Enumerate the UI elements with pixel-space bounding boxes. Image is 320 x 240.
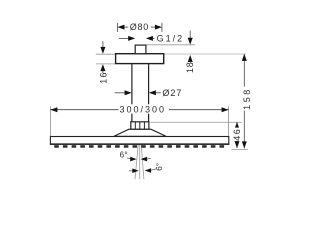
dimension O80 left arrow [118,25,125,30]
dimension 18 bottom arrow [188,55,193,62]
svg-text:16: 16 [99,71,109,83]
pipe [131,64,133,122]
bottom right extension line [232,148,248,150]
dimension 158 text [241,87,252,111]
dimension 46 bottom arrow [235,141,240,148]
svg-text:46: 46 [232,128,242,141]
dimension O27 right arrow [149,90,156,95]
angle 6 upper leader [127,158,131,159]
dimension 46 top arrow [235,122,240,129]
angle 6 upper right arrow [141,157,147,162]
svg-text:18: 18 [185,61,195,73]
nut block [131,122,149,129]
nut ribs [134,122,136,129]
flange extension line bottom left [96,63,116,65]
dimension 158 line [243,54,245,148]
angle 6 lower right arrow [145,168,151,173]
shower head bottom face [50,143,229,145]
dimension 46 text [233,128,242,141]
svg-text:300/300: 300/300 [120,105,167,115]
shower head plate [50,137,228,145]
dimension 46 line [236,122,238,148]
dimension 300/300 line [50,109,228,111]
mount trapezoid [114,129,166,136]
svg-text:Ø80: Ø80 [130,22,149,32]
dimension 300/300 text [119,104,170,113]
nozzles [54,145,224,148]
ceiling flange [116,54,164,64]
spray centre line [139,145,141,179]
svg-text:6°: 6° [120,150,128,159]
dimension 158 top arrow [242,54,247,61]
dimension 158 bottom arrow [242,141,247,148]
dimension 16 top arrow [102,41,104,47]
flange extension line top left [96,53,116,55]
spray left line [135,145,138,179]
dimension 300/300 right arrow [222,107,229,112]
spray right line [141,145,144,179]
G1/2 nub [135,45,146,54]
dimension 16 bottom arrow [100,64,105,71]
extension line left of 300 dim [49,106,51,136]
dimension O80 left tick [117,23,119,32]
dimension G1/2 right arrow [146,36,153,41]
svg-text:G1/2: G1/2 [157,34,185,44]
dimension 18 top arrow [189,31,191,40]
svg-text:6°: 6° [155,162,164,170]
ceiling line [164,53,246,55]
nub top extension line [146,44,195,46]
dimension O80 right tick [161,23,163,32]
dimension 300/300 left arrow [50,107,57,112]
dimension O80 right arrow [155,25,162,30]
dimension G1/2 left arrow [119,37,129,39]
angle 6 upper left arrow [130,157,136,162]
svg-text:Ø27: Ø27 [162,88,182,98]
dimension O27 left arrow [115,92,126,94]
mount top extension line [151,121,242,123]
extension line right of 300 dim [228,106,230,136]
svg-text:158: 158 [242,87,252,110]
angle 6 lower left arrow [129,170,133,172]
